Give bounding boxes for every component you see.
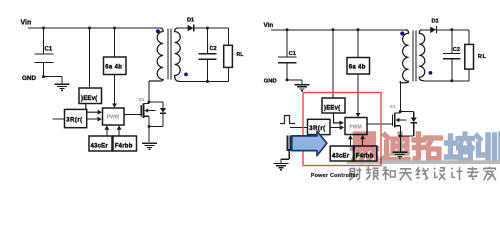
svg-text:RL: RL <box>237 52 245 58</box>
watermark char 3 (tuo) <box>414 134 424 159</box>
wire: C2 top lead (right) <box>451 30 453 53</box>
wire: C1 bottom lead <box>43 63 45 77</box>
node: bottom junction at C2 (right) <box>450 79 453 82</box>
svg-text:PWM: PWM <box>107 115 119 121</box>
wire: output bottom rail (right) <box>424 80 469 82</box>
block bias supply (right) <box>347 58 370 75</box>
block PWM (left) <box>103 108 125 125</box>
wire: source lead <box>148 116 150 126</box>
block PWM (right) <box>345 118 367 135</box>
wire: source lead (right) <box>399 126 401 136</box>
wire: UVLO to PWM with arrow <box>86 104 98 113</box>
svg-text:GND: GND <box>264 79 277 85</box>
wire: source to ground <box>148 127 150 143</box>
svg-text:S1: S1 <box>390 104 396 109</box>
ground (pulse source) <box>274 163 289 165</box>
wire: ramp comp to PWM arrow (right) <box>349 139 351 146</box>
block UVLO (left) <box>79 88 102 104</box>
node: rail junction at C1 <box>42 27 45 30</box>
svg-text:43cEr: 43cEr <box>91 144 109 150</box>
svg-text:C1: C1 <box>45 47 53 53</box>
wire: GND node to ground <box>44 76 63 78</box>
wire: PWM output to gate <box>124 114 141 116</box>
wire: feedback to PWM with arrow (right) <box>330 127 340 129</box>
wire: bias to PWM with arrow <box>114 75 116 105</box>
ground (right MOSFET) <box>392 151 407 153</box>
resistor RL (left) <box>224 45 233 67</box>
wire: drain to transformer (right) <box>399 81 401 113</box>
wire: output top rail (right) <box>436 29 469 31</box>
wire: C2 top lead <box>206 28 208 53</box>
wire: UVLO to PWM with arrow (right) <box>334 113 340 123</box>
wire: C1 top lead <box>43 28 45 54</box>
svg-text:C1: C1 <box>289 51 296 57</box>
wire: body diode to source (right) <box>413 123 415 136</box>
block feedback amp (left) <box>65 109 87 127</box>
wire: C1 top lead (right) <box>286 30 288 57</box>
svg-text:PWM: PWM <box>349 124 361 130</box>
block comparator B (right) <box>354 146 377 161</box>
wire: left input rail <box>28 27 161 29</box>
wire: secondary to D1 <box>178 27 188 29</box>
wire: ramp comp to PWM arrow <box>106 129 108 136</box>
wire: rail to bias block <box>114 28 116 57</box>
node: rail junction at UVLO feed <box>88 27 91 30</box>
ground (right input) <box>295 84 310 86</box>
watermark underline swoosh <box>346 160 500 164</box>
wire: pulse source return to ground <box>288 149 290 159</box>
wire: GND node to ground (right) <box>287 79 302 81</box>
transformer T1 secondary (right) <box>419 30 425 81</box>
block UVLO (right) <box>322 98 345 113</box>
svg-text:D1: D1 <box>187 18 194 24</box>
wire: CS comp to PWM arrow (right) <box>362 139 364 146</box>
ground (left input) <box>55 83 70 85</box>
svg-text:GND: GND <box>22 75 36 82</box>
wire: RL top lead <box>227 28 229 45</box>
watermark slogan line <box>349 168 362 181</box>
svg-text:C2: C2 <box>210 46 217 52</box>
watermark char 4 (pei) <box>447 136 456 157</box>
svg-text:D1: D1 <box>432 19 439 25</box>
wire: output top rail (left) <box>194 27 229 29</box>
node: source junction <box>148 125 151 128</box>
wire: drain to body diode <box>149 101 163 103</box>
wire: rail to bias block (right) <box>357 30 359 58</box>
wire: RL top lead (right) <box>468 30 470 45</box>
node: drain junction <box>148 101 151 104</box>
wire: bias to PWM with arrow (right) <box>357 74 359 114</box>
wire: CS comp to PWM arrow <box>118 129 120 136</box>
wire: output bottom rail (left) <box>180 80 229 82</box>
node: output junction at C2 top <box>206 27 209 30</box>
wire: right input rail <box>271 29 406 31</box>
transformer T1 secondary (left) <box>175 28 181 81</box>
node: rail junction at bias feed <box>113 27 116 30</box>
svg-text:RL: RL <box>478 54 487 60</box>
node: rail junction at bias feed (right) <box>357 28 360 31</box>
wire: secondary to D1 (right) <box>422 29 430 31</box>
transistor Q1 MOSFET (right) <box>392 115 394 127</box>
resistor RL (right) <box>465 44 474 69</box>
svg-text:)EEv(: )EEv( <box>81 96 97 102</box>
svg-text:Vin: Vin <box>21 20 32 27</box>
block bias supply (left) <box>104 57 127 75</box>
wire: feedback input stub (left) <box>53 118 65 120</box>
node: output junction at C2 top (right) <box>450 28 453 31</box>
svg-text:3R(r(: 3R(r( <box>66 118 82 124</box>
node: rail junction at UVLO feed (right) <box>332 28 335 31</box>
svg-text:6a 4b: 6a 4b <box>105 65 122 71</box>
wire: drain to transformer <box>148 81 150 104</box>
diode body D (right) <box>411 118 417 123</box>
svg-text:6a 4b: 6a 4b <box>349 65 366 71</box>
wire: drain to body diode (right) <box>400 111 413 113</box>
node: rail junction at C1 (right) <box>286 28 289 31</box>
wire: RL bottom lead <box>227 67 229 81</box>
node: secondary phase dot (right) <box>429 71 433 75</box>
capacitor C2 (left) <box>199 53 217 55</box>
wire: body diode to source <box>162 113 164 126</box>
callout blue arrow <box>286 135 288 151</box>
wire: PWM output to gate (right) <box>367 123 393 125</box>
node: primary phase dot (right) <box>400 31 404 35</box>
svg-text:43cEr: 43cEr <box>332 154 350 160</box>
transformer T1 primary (left) <box>149 28 163 81</box>
transformer T1 primary (right) <box>400 30 408 83</box>
wire: rail to UVLO block <box>89 28 91 88</box>
node: drain junction (right) <box>399 110 402 113</box>
capacitor C1 (right) <box>278 56 297 58</box>
svg-text:Vin: Vin <box>264 22 274 29</box>
transformer T1 core <box>167 29 169 80</box>
wire: feedback to PWM with arrow <box>87 118 98 120</box>
wire: rail to UVLO block (right) <box>332 30 334 98</box>
wire: C1 bottom lead (right) <box>286 63 288 80</box>
block comparator B (left) <box>113 136 137 151</box>
ground (left MOSFET) <box>142 142 157 144</box>
svg-text:F4rbb: F4rbb <box>115 144 133 150</box>
node: secondary phase dot (left) <box>184 73 188 77</box>
block feedback amp (right) <box>308 119 331 134</box>
capacitor C1 <box>35 53 54 55</box>
transformer T1 core (right) <box>412 31 414 82</box>
pulse source symbol <box>280 116 295 124</box>
node: source junction (right) <box>399 135 402 138</box>
svg-text:)EEv(: )EEv( <box>324 106 340 112</box>
block comparator A (left) <box>89 136 112 151</box>
node: primary phase dot (left) <box>156 29 160 33</box>
wire: C2 bottom lead <box>206 60 208 82</box>
watermark char 2 (di) <box>385 135 388 152</box>
capacitor C2 (right) <box>443 53 461 55</box>
block comparator A (right) <box>330 146 353 161</box>
transistor Q1 MOSFET (left) <box>140 105 142 117</box>
wire: RL bottom lead (right) <box>468 69 470 81</box>
watermark char 1 (yi) <box>356 134 374 144</box>
svg-text:S1: S1 <box>139 97 145 102</box>
node: bottom junction at C2 <box>206 80 209 83</box>
wire: C2 bottom lead (right) <box>451 59 453 81</box>
diode body D (left) <box>160 108 166 113</box>
watermark char 5 (xun) <box>477 136 483 155</box>
wire: feedback input stub (right) <box>290 127 308 129</box>
svg-text:C2: C2 <box>453 47 460 53</box>
highlight box around power controller <box>303 93 381 166</box>
wire: source to ground (right) <box>399 136 401 151</box>
